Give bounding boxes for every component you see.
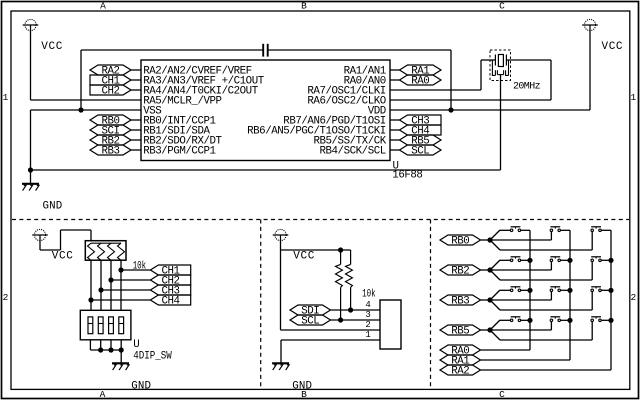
junction col3 row2 [608,258,613,263]
wire SDI [331,309,381,311]
wire RB5 mid [490,329,551,331]
switch SW RB0-2 [550,229,553,232]
wire RB5 sw3 riser [591,322,593,340]
wire RB2 sw1 right [521,259,530,261]
svg-text:U: U [133,339,139,351]
switch SW RB2-3 [591,259,594,262]
resistor RN1-a [88,243,95,260]
svg-text:CH2: CH2 [101,86,119,98]
wire VSS down [30,110,32,170]
resistor RN1-b [98,243,105,260]
wire RB5 diag down [490,330,500,340]
wire RB5 stub [481,329,491,331]
capacitor C1 [262,44,264,57]
wire pin RB6 [390,129,400,131]
wire pin1 [281,339,380,341]
switch SW RB0-1 [510,229,512,232]
svg-text:C: C [499,1,505,12]
wire pin RB3 [131,149,141,151]
wire RB5 bypass [500,339,592,341]
junction R2 bottom [348,307,353,312]
wire DIP gnd bus [90,349,121,351]
svg-text:4: 4 [365,300,370,310]
svg-text:C: C [499,389,505,400]
wire DIP pin2 down [100,340,102,350]
svg-text:1: 1 [365,330,370,340]
wire RB0 sw3 riser [591,232,593,250]
svg-text:20MHz: 20MHz [513,81,541,92]
junction RB3 [487,297,492,302]
wire pin RB2 [131,139,141,141]
wire RB0 diag up [490,230,500,240]
wire RB0 stub [481,239,491,241]
wire RB5 sw1 left [500,319,510,321]
wire cap right [269,49,452,51]
wire pin RA0 [390,79,400,81]
wire RA2 [481,369,612,371]
section divider horizontal [12,219,629,221]
switch SW RB5-3 [591,319,594,322]
wire DIP pin4 down [120,340,122,350]
switch SW RB2-1 [510,259,512,262]
svg-text:VCC: VCC [41,41,63,53]
wire CH4 [91,299,150,301]
switch SW RB3-3 [591,289,594,292]
ground section B [272,362,289,364]
power VCC section B [275,229,286,240]
wire OSC1 [390,89,481,91]
connector CN1 box [380,300,401,349]
svg-text:10k: 10k [362,287,376,300]
node RA0 [400,75,442,85]
wire RB0 bypass [500,249,592,251]
svg-text:2: 2 [3,292,9,303]
switch SW RB2-2 [550,259,553,262]
svg-text:CH4: CH4 [162,296,180,308]
junction CH2 tap [108,277,113,282]
svg-text:RB2: RB2 [451,266,469,278]
switch SW RB3-1 [510,289,512,292]
node CH2 flag [150,275,190,285]
wire CH2 [111,279,150,281]
switch SW RB3-2 [550,289,553,292]
wire RB3 stub [481,299,491,301]
switch slot 2 [98,317,103,334]
switch slot 3 [109,317,114,334]
wire RB0 sw3 right [601,229,611,231]
wire RB3 sw3 right [601,289,611,291]
crystal X1 20MHz [490,50,511,81]
switch SW RB0-3 [591,229,594,232]
node RA1 keypad [440,355,481,365]
wire column RA2 [610,230,612,370]
junction col1 row2 [527,258,532,263]
wire CH3 [101,289,150,291]
node CH4 flag [150,295,190,305]
wire column RA1 [569,230,571,360]
svg-text:VCC: VCC [602,41,624,53]
svg-text:A: A [100,1,106,12]
wire RB2 sw2 riser [550,262,552,270]
svg-text:RA2: RA2 [451,366,469,378]
svg-text:A: A [100,389,106,400]
wire pin2 [281,329,381,331]
wire RB0 mid [490,239,551,241]
wire RB2 sw3 riser [591,262,593,280]
wire RN1-c down [110,260,112,310]
wire RB2 sw3 right [601,259,611,261]
resistor network RN1 box [85,241,126,261]
wire OSC2 [390,99,551,101]
junction CH3 tap [98,287,103,292]
svg-text:1: 1 [3,92,9,103]
node SCL flag B [290,315,331,325]
junction col1 row4 [527,318,532,323]
wire pin RA2 [131,69,141,71]
wire MCLR [31,99,142,101]
wire RB3 bypass [500,309,592,311]
node RA1 [400,65,442,75]
wire RB3 sw3 riser [591,292,593,310]
svg-text:B: B [301,1,307,12]
switch slot 4 [119,317,124,334]
wire RB0 sw1 left [500,229,510,231]
svg-text:GND: GND [43,200,63,212]
wire VCC-A [39,240,41,250]
node CH4 mcu [400,125,442,135]
junction col3 row4 [608,318,613,323]
junction VSS tap [78,107,83,112]
section divider vertical left [260,220,262,390]
node RB5 keypad [440,325,481,335]
junction col2 row4 [567,318,572,323]
node SCI [90,125,131,135]
resistor R1 10k [340,250,342,264]
wire DIP pin3 down [110,340,112,350]
junction RB0 [487,237,492,242]
junction DIP bus 1 [98,347,103,352]
wire pin RA3 [131,79,141,81]
ground top-left [22,183,39,185]
wire RN1 common bus [91,242,121,244]
wire RB3 mid [490,299,551,301]
node SDI [290,305,331,315]
svg-text:VCC: VCC [52,251,74,263]
svg-text:VCC: VCC [293,251,315,263]
switch SW RB5-2 [550,319,553,322]
wire RB5 sw3 right [601,319,611,321]
node RB3 keypad [440,295,481,305]
wire VDD [390,109,590,111]
wire RN1-d down [120,260,122,310]
wire SCL [331,319,381,321]
svg-text:RB3: RB3 [451,296,469,308]
wire CH1 [121,269,150,271]
wire VCC-B branch [281,249,351,251]
node RB5 [400,135,442,145]
wire RB2 sw2 right [561,259,571,261]
svg-text:SCL: SCL [411,146,429,158]
power VCC top-right [584,19,595,30]
node RA2 keypad [440,365,481,375]
resistor RN1-d [118,243,125,260]
wire RB3 sw1 left [500,289,510,291]
junction DIP bus 3 [119,347,124,352]
junction col1 row3 [527,288,532,293]
node RB3 [90,145,131,155]
wire crystal gnd [500,75,502,170]
wire cap branch down [80,50,82,110]
svg-text:2: 2 [365,320,370,330]
svg-text:RB3: RB3 [101,146,119,158]
wire RB5 sw2 riser [550,322,552,330]
wire RB2 stub [481,269,491,271]
power VCC section A [34,229,45,240]
wire VCC-B stem [280,240,282,330]
wire pin RA1 [390,69,400,71]
node CH2 mcu [90,85,131,95]
wire RB0 sw2 right [561,229,571,231]
junction col2 row3 [567,288,572,293]
wire VCC1 stem [30,30,32,100]
wire RN1-b down [100,260,102,310]
wire pin RB4 [390,149,400,151]
ground section A [112,362,129,364]
junction col2 row2 [567,258,572,263]
svg-text:2: 2 [630,292,636,303]
svg-text:RB0: RB0 [451,236,469,248]
node CH1 flag [150,265,190,275]
wire RB3 diag up [490,290,500,300]
wire RB0 sw2 riser [550,232,552,240]
wire cap left [81,49,263,51]
junction GND rail [28,167,33,172]
junction R1 top [338,247,343,252]
junction CH4 tap [88,297,93,302]
wire RB2 diag down [490,270,500,280]
wire RB0 sw1 right [521,229,530,231]
junction VDD tap [448,107,453,112]
node SCL mcu [400,145,442,155]
wire pin RB1 [131,129,141,131]
section divider vertical right [430,220,432,390]
node RB2 [90,135,131,145]
svg-text:4DIP_SW: 4DIP_SW [133,351,172,363]
wire pin RB0 [131,119,141,121]
node CH3 flag [150,285,190,295]
svg-text:RA0: RA0 [411,76,429,88]
node RB0 [90,115,131,125]
wire cap to VDD [450,50,452,110]
svg-text:16F88: 16F88 [392,170,422,182]
wire DIP gnd stem [120,350,122,363]
node RA0 keypad [440,345,481,355]
junction DIP bus 2 [108,347,113,352]
label 10k section B [362,287,376,300]
resistor RN1-c [108,243,115,260]
switch slot 1 [88,317,93,334]
wire pin RB5 [390,139,400,141]
junction RB5 [487,327,492,332]
svg-text:GND: GND [292,381,312,393]
svg-text:SCL: SCL [301,316,319,328]
node CH3 mcu [400,115,442,125]
wire RB3 sw1 right [521,289,530,291]
wire VCC2 stem [589,30,591,110]
wire RB2 sw1 left [500,259,510,261]
wire RB5 sw1 right [521,319,530,321]
svg-text:GND: GND [131,380,151,392]
switch U2 4DIP_SW box [80,310,131,340]
wire RA1 [481,359,571,361]
label 10k section A [133,259,147,272]
wire RB3 sw2 right [561,289,571,291]
svg-text:RB4/SCK/SCL: RB4/SCK/SCL [319,146,385,158]
wire RB2 bypass [500,279,592,281]
node RB0 keypad [440,235,481,245]
wire RB3 diag down [490,300,500,310]
svg-text:RB3/PGM/CCP1: RB3/PGM/CCP1 [143,146,215,158]
wire column RA0 [529,230,531,350]
op-amp U1 16F88 box [141,60,390,161]
wire RA0 [481,349,531,351]
wire RB0 diag down [490,240,500,250]
junction RB2 [487,267,492,272]
node RB2 keypad [440,265,481,275]
resistor R2 10k [350,250,352,264]
wire GND rail [31,169,501,171]
wire RN1-a down [90,260,92,310]
svg-text:3: 3 [365,310,370,320]
wire RB5 diag up [490,320,500,330]
junction col3 row3 [608,288,613,293]
wire RB2 mid [490,269,551,271]
wire VSS left [31,109,142,111]
wire RB3 sw2 riser [550,292,552,300]
wire pin RA4 [131,89,141,91]
junction R1 bottom [338,317,343,322]
wire DIP pin1 down [89,340,91,350]
junction CH1 tap [118,267,123,272]
svg-text:RB5: RB5 [451,326,469,338]
node RA2 [90,65,131,75]
wire RB5 sw2 right [561,319,571,321]
power VCC top-left [25,19,36,30]
node CH1 mcu [90,75,131,85]
svg-text:1: 1 [630,92,636,103]
wire RB2 diag up [490,260,500,270]
wire GND stem [30,170,32,183]
wire pin RB7 [390,119,400,121]
switch SW RB5-1 [510,319,512,322]
